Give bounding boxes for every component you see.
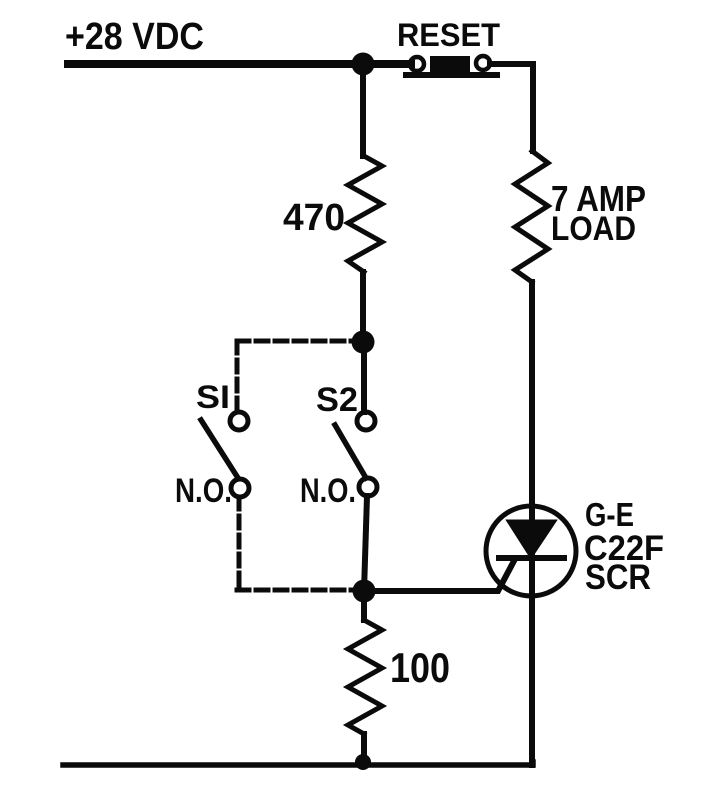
switch S1 (201, 412, 249, 497)
svg-text:RESET: RESET (397, 17, 500, 53)
svg-text:LOAD: LOAD (551, 210, 636, 248)
svg-text:470: 470 (283, 197, 345, 239)
wire 100 top lead (361, 591, 367, 620)
switch RESET pushbutton (406, 56, 497, 75)
svg-text:N.O.: N.O. (175, 472, 232, 510)
wire bottom rail (63, 762, 533, 765)
resistor 470 (348, 156, 382, 272)
wire top rail right (490, 64, 533, 151)
SCR U1 (486, 506, 576, 596)
svg-text:+28 VDC: +28 VDC (65, 16, 204, 58)
svg-text:S2: S2 (316, 381, 358, 419)
node bottom junction (355, 754, 371, 770)
wire dashed box bottom (237, 588, 352, 593)
wire 470 top lead (360, 64, 366, 156)
wire 100 bottom lead (361, 734, 367, 762)
wire S2 bottom lead (364, 496, 367, 591)
wire S2 top lead (361, 342, 367, 412)
svg-text:SI: SI (196, 379, 230, 415)
wire dashed box left upper (235, 341, 240, 410)
node top junction (352, 53, 375, 76)
node junction B (353, 580, 376, 603)
node junction A (352, 331, 375, 354)
wire gate (364, 559, 515, 591)
svg-text:100: 100 (390, 644, 450, 691)
switch S2 (335, 412, 377, 496)
wire 470 bottom lead (360, 272, 366, 342)
wire dashed box top (237, 339, 353, 344)
wire load to SCR anode (529, 282, 535, 765)
svg-text:SCR: SCR (585, 558, 651, 597)
resistor 7 AMP LOAD (515, 151, 548, 282)
svg-text:N.O.: N.O. (300, 472, 356, 510)
wire top rail left (68, 60, 411, 68)
wire dashed box left lower (237, 497, 242, 590)
resistor 100 (348, 620, 382, 734)
svg-text:G-E: G-E (585, 496, 634, 533)
